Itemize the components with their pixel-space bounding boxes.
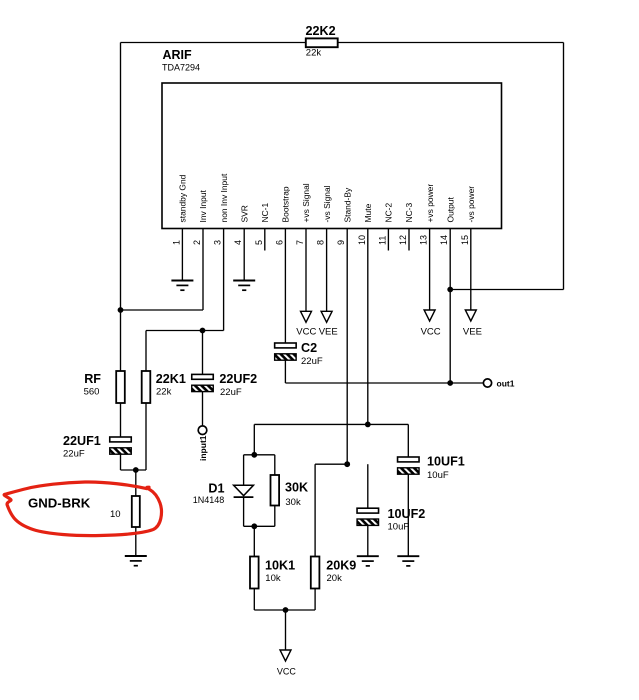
wire top rail left of R 22K2 [121, 42, 306, 44]
svg-text:VEE: VEE [319, 326, 338, 337]
svg-text:22k: 22k [306, 48, 322, 59]
red hand-drawn annotation circle around GND-BRK [4, 482, 161, 536]
wire 10UF2 to ground [367, 525, 369, 556]
svg-text:22uF: 22uF [301, 356, 323, 367]
svg-text:ARIF: ARIF [163, 48, 193, 62]
svg-text:15: 15 [460, 235, 470, 245]
wire to VCC arrow [285, 610, 287, 650]
wire 22UF2 top [202, 331, 204, 375]
resistor GND-BRK body [132, 496, 140, 527]
svg-text:Bootstrap: Bootstrap [281, 186, 291, 222]
svg-text:30k: 30k [285, 497, 301, 508]
svg-text:10K1: 10K1 [265, 559, 295, 573]
svg-text:Mute: Mute [363, 203, 373, 222]
wire D1/30K top bar [244, 454, 275, 456]
svg-text:NC-1: NC-1 [260, 203, 270, 223]
svg-text:560: 560 [84, 387, 100, 398]
wire node above GND-BRK [121, 469, 147, 471]
VCC arrow at pin 7 [301, 311, 312, 322]
capacitor 22UF1 body [110, 437, 132, 454]
junction D1/30K top [251, 452, 257, 458]
svg-text:VCC: VCC [421, 326, 441, 337]
svg-text:22k: 22k [156, 387, 172, 398]
wire GND-BRK to ground [135, 527, 137, 556]
wire RF to 22UF1 [120, 403, 122, 437]
wire 10UF2 top [367, 464, 369, 508]
svg-text:out1: out1 [497, 378, 515, 388]
svg-text:-vs Signal: -vs Signal [322, 185, 332, 222]
svg-text:7: 7 [295, 240, 305, 245]
wire 30K bottom [274, 506, 276, 527]
svg-text:30K: 30K [285, 481, 308, 495]
svg-text:4: 4 [233, 240, 243, 245]
wire 22K1 bottom [145, 403, 147, 470]
capacitor C2 body [275, 343, 297, 360]
wire C2 bottom to out1 rail [284, 360, 286, 383]
svg-text:VEE: VEE [463, 326, 482, 337]
wire bottom rail to VCC [254, 609, 315, 611]
svg-text:1: 1 [171, 240, 181, 245]
capacitor 22UF2 body [192, 374, 214, 391]
wire mute rail to D1/30K [253, 424, 255, 454]
terminal out1 [483, 379, 491, 387]
wire 10UF1 top [407, 424, 409, 457]
junction feedback node / pin2 [118, 307, 124, 313]
ground at pin 4 [233, 281, 255, 291]
wire right vertical feedback [563, 43, 565, 290]
wire pin 13 vertical [429, 229, 431, 311]
svg-text:10uF: 10uF [427, 470, 449, 481]
wire pin 10 Mute vertical [367, 229, 369, 425]
wire 20K9 top [314, 464, 316, 556]
svg-text:+vs power: +vs power [425, 184, 435, 223]
svg-text:22K2: 22K2 [306, 24, 336, 38]
svg-text:10UF1: 10UF1 [427, 455, 465, 469]
svg-text:5: 5 [254, 240, 264, 245]
wire pin 4 to ground [243, 229, 245, 281]
svg-text:22UF1: 22UF1 [63, 434, 101, 448]
wire pin 12 stub NC-3 [408, 229, 410, 251]
svg-text:20K9: 20K9 [326, 559, 356, 573]
svg-text:10k: 10k [265, 573, 281, 584]
wire pin 2 vertical [202, 229, 204, 311]
wire 22UF1 bottom [120, 454, 122, 470]
resistor 30K body [271, 475, 280, 506]
svg-text:3: 3 [213, 240, 223, 245]
junction bottom rail / VCC [283, 607, 289, 613]
svg-text:9: 9 [336, 240, 346, 245]
wire pin 8 vertical [326, 229, 328, 312]
wire feedback to Output pin 14 [450, 289, 563, 291]
svg-text:Inv Input: Inv Input [198, 189, 208, 222]
wire 22UF2 to input1 [202, 392, 204, 426]
wire pin 3 vertical [223, 229, 225, 331]
wire D1 cathode [243, 497, 245, 526]
svg-text:+vs Signal: +vs Signal [301, 183, 311, 222]
svg-text:NC-3: NC-3 [404, 203, 414, 223]
wire pin 3 input node horizontal [146, 330, 224, 332]
wire 30K top [274, 455, 276, 475]
wire out1 rail [285, 382, 483, 384]
wire D1/30K bottom bar [244, 525, 275, 527]
svg-text:1N4148: 1N4148 [193, 495, 225, 505]
svg-text:GND-BRK: GND-BRK [28, 496, 91, 511]
wire pin 5 stub NC-1 [264, 229, 266, 251]
capacitor 10UF2 body [357, 508, 379, 525]
svg-text:13: 13 [419, 235, 429, 245]
svg-text:2: 2 [192, 240, 202, 245]
ground below GND-BRK [125, 556, 147, 566]
svg-text:-vs power: -vs power [466, 186, 476, 223]
junction pin14 / out1 rail [447, 380, 453, 386]
wire mute rail [254, 423, 408, 425]
svg-text:D1: D1 [208, 481, 224, 495]
VCC arrow bottom [280, 650, 291, 661]
ground below 10UF2 [357, 556, 379, 566]
wire pin 15 vertical [470, 229, 472, 311]
junction input node / 22UF2 [200, 328, 206, 334]
wire to 10K1 [253, 526, 255, 556]
resistor 22K2 body [306, 38, 338, 47]
svg-text:12: 12 [398, 235, 408, 245]
svg-text:10: 10 [110, 509, 121, 520]
svg-text:non Inv Input: non Inv Input [219, 173, 229, 222]
junction GND-BRK node [133, 467, 139, 473]
svg-text:C2: C2 [301, 341, 317, 355]
svg-text:TDA7294: TDA7294 [162, 63, 200, 73]
resistor 22K1 body [142, 371, 151, 403]
svg-text:6: 6 [274, 240, 284, 245]
wire 10UF1 to ground [407, 474, 409, 556]
wire standby rail [315, 463, 347, 465]
wire 10K1 bottom [253, 589, 255, 611]
svg-text:11: 11 [377, 236, 387, 245]
terminal input1 [198, 426, 207, 435]
svg-text:22K1: 22K1 [156, 372, 186, 386]
svg-text:NC-2: NC-2 [384, 203, 394, 223]
svg-text:14: 14 [439, 235, 449, 245]
wire 20K9 bottom [314, 589, 316, 611]
svg-text:VCC: VCC [296, 326, 316, 337]
wire pin 1 to ground [181, 229, 183, 281]
ground below 10UF1 [397, 556, 419, 566]
junction D1/30K bottom [251, 523, 257, 529]
wire pin 6 to C2 [284, 229, 286, 344]
VEE arrow at pin 15 [465, 310, 476, 321]
junction pin14 / feedback [447, 287, 453, 293]
VCC arrow at pin 13 [424, 310, 435, 321]
wire left vertical feedback node [120, 43, 122, 372]
svg-text:SVR: SVR [239, 205, 249, 222]
op-amp U1 ARIF TDA7294 body [162, 83, 502, 229]
wire top rail right of 22K2 [338, 42, 564, 44]
resistor RF body [116, 371, 125, 403]
wire pin 2 to feedback node [121, 309, 204, 311]
junction pin10 / mute rail [365, 422, 371, 428]
svg-text:standby Gnd: standby Gnd [178, 174, 188, 222]
svg-text:22uF: 22uF [220, 387, 242, 398]
wire pin 11 stub NC-2 [387, 229, 389, 251]
wire pin 7 vertical [305, 229, 307, 312]
diode D1 symbol [234, 485, 254, 497]
ground at pin 1 [171, 281, 193, 291]
svg-text:input1: input1 [198, 435, 208, 461]
resistor 10K1 body [250, 557, 259, 589]
wire D1 anode [243, 455, 245, 486]
svg-text:10UF2: 10UF2 [388, 507, 426, 521]
svg-text:RF: RF [84, 372, 101, 386]
svg-text:Output: Output [445, 197, 455, 223]
svg-text:VCC: VCC [277, 666, 297, 676]
svg-text:22uF: 22uF [63, 448, 85, 459]
svg-text:20k: 20k [327, 573, 343, 584]
wire GND-BRK top [135, 470, 137, 496]
wire pin 14 Output vertical [449, 229, 451, 384]
svg-text:10: 10 [357, 235, 367, 245]
svg-text:10uF: 10uF [388, 522, 410, 533]
svg-text:8: 8 [316, 240, 326, 245]
junction pin9 / standby rail [344, 461, 350, 467]
wire pin 9 Stand-By vertical [346, 229, 348, 465]
capacitor 10UF1 body [398, 457, 420, 474]
wire 22K1 top [145, 331, 147, 372]
resistor 20K9 body [311, 557, 320, 589]
svg-text:Stand-By: Stand-By [342, 187, 352, 222]
svg-text:22UF2: 22UF2 [219, 372, 257, 386]
VEE arrow at pin 8 [321, 311, 332, 322]
